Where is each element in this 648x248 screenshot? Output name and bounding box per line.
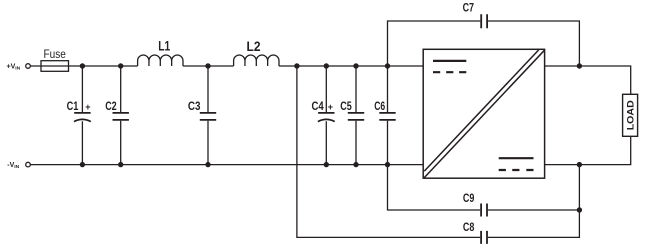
svg-text:Fuse: Fuse (44, 47, 66, 61)
junction bottom rail C2 (118, 162, 123, 167)
junction bottom rail C4 (324, 162, 329, 167)
capacitor C6 plates (379, 113, 395, 120)
svg-text:-VIN: -VIN (7, 162, 19, 170)
junction L1-L2 node (205, 63, 210, 68)
terminal -VIN (26, 162, 31, 167)
capacitor C5 wires (355, 66, 357, 165)
svg-text:L2: L2 (247, 39, 261, 54)
junction top rail C8 branch (294, 63, 299, 68)
svg-text:+VIN: +VIN (7, 63, 21, 71)
inductor L1 (138, 55, 183, 66)
converter U1 output DC bars (499, 157, 534, 159)
capacitor C6 wires (387, 66, 389, 165)
junction top rail C1 (80, 63, 85, 68)
capacitor C8 wires (297, 66, 580, 237)
capacitor C1 plates (74, 113, 91, 122)
junction top rail C6-C7 (385, 63, 390, 68)
wire bottom rail (30, 164, 423, 166)
load block (623, 94, 638, 136)
junction bottom rail C5 (353, 162, 358, 167)
svg-text:+: + (85, 102, 90, 112)
capacitor C2 plates (113, 113, 129, 120)
capacitor C7 plates (481, 14, 487, 28)
converter U1 diagonal (424, 50, 544, 178)
wire L1 to L2 (183, 65, 234, 67)
capacitor C7 wires (388, 21, 580, 66)
junction output top C7 (577, 63, 582, 68)
fuse F1 (41, 61, 69, 72)
junction top rail C4 (324, 63, 329, 68)
junction bottom rail C1 (80, 162, 85, 167)
svg-text:C1: C1 (67, 99, 79, 113)
svg-text:C9: C9 (463, 191, 475, 205)
terminal +VIN (26, 64, 31, 69)
svg-text:LOAD: LOAD (626, 100, 637, 130)
capacitor C4 plates (318, 113, 335, 122)
capacitor C9 plates (481, 204, 487, 217)
svg-text:C8: C8 (463, 220, 475, 234)
capacitor C1 wires (81, 66, 83, 165)
wire L2 to converter (279, 65, 423, 67)
junction bottom rail C6-C9 (385, 162, 390, 167)
capacitor C9 wires (388, 165, 580, 210)
svg-text:C2: C2 (105, 99, 117, 113)
junction C9 output (577, 207, 582, 212)
capacitor C8 plates (481, 231, 487, 244)
svg-text:C4: C4 (312, 99, 324, 113)
converter U1 box (423, 49, 544, 178)
junction bottom rail C3 (205, 162, 210, 167)
junction top rail C5 (353, 63, 358, 68)
junction top rail C2 (118, 63, 123, 68)
svg-text:C7: C7 (463, 1, 475, 15)
capacitor C4 wires (325, 66, 327, 165)
capacitor C3 plates (200, 113, 216, 120)
svg-text:+: + (328, 102, 333, 112)
capacitor C5 plates (348, 113, 364, 120)
wire top rail input to L1 (30, 65, 137, 67)
converter U1 input DC bars (433, 60, 466, 62)
capacitor C3 wires (207, 66, 209, 165)
svg-text:C6: C6 (374, 99, 385, 113)
inductor L2 (234, 55, 279, 66)
svg-text:C3: C3 (188, 99, 201, 113)
wire output bottom to load (545, 136, 631, 164)
wire output top to load (545, 66, 631, 94)
junction output bottom (577, 162, 582, 167)
svg-text:C5: C5 (340, 99, 352, 113)
capacitor C2 wires (120, 66, 122, 165)
svg-text:L1: L1 (158, 39, 170, 54)
